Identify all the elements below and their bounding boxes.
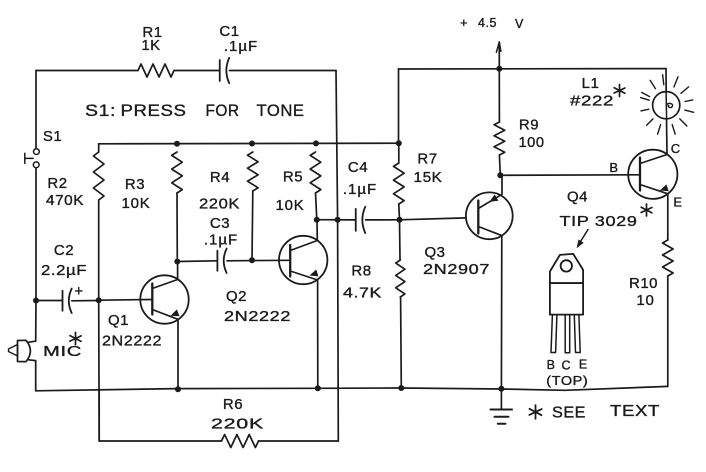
switch S1 contact top: [34, 149, 40, 155]
switch S1 actuator: [25, 157, 33, 159]
node R4 bottom junction: [249, 257, 255, 263]
Q4 package pin C: [565, 315, 570, 353]
wire lamp to Q4 collector: [666, 119, 669, 155]
svg-text:TIP 3029: TIP 3029: [560, 213, 638, 230]
wire R9 bottom: [498, 155, 501, 175]
svg-text:1K: 1K: [141, 37, 160, 54]
wire C4 to R7 node: [366, 219, 400, 221]
svg-text:R4: R4: [210, 169, 230, 186]
wire R6 left horizontal: [99, 440, 221, 442]
node +4.5V rail junction: [496, 66, 502, 72]
ground symbol: [500, 389, 502, 410]
svg-text:Q2: Q2: [226, 288, 247, 305]
transistor Q1 emitter: [152, 310, 178, 390]
svg-text:+: +: [74, 283, 83, 300]
wire R6 right horizontal: [259, 440, 339, 442]
svg-text:2.2µF: 2.2µF: [41, 262, 87, 279]
power +4.5V arrow: [498, 42, 500, 69]
svg-text:B: B: [547, 358, 556, 372]
transistor Q3 circle: [466, 192, 513, 239]
transistor Q2 base bar: [289, 245, 291, 277]
resistor R9: [494, 122, 505, 155]
wire R6 left vertical: [98, 391, 100, 441]
svg-text:C2: C2: [54, 242, 74, 259]
lamp L1 filament: [666, 103, 672, 107]
svg-text:S1:: S1:: [85, 102, 116, 120]
svg-text:R6: R6: [223, 396, 243, 413]
transistor Q4 circle: [628, 150, 677, 199]
wire left vertical below S1: [35, 168, 37, 301]
wire R4 bottom: [251, 191, 254, 260]
node R5 top: [313, 140, 319, 146]
svg-text:SEE: SEE: [552, 405, 586, 422]
svg-text:R5: R5: [283, 169, 303, 186]
svg-text:TONE: TONE: [257, 102, 305, 120]
wire R8 top: [399, 220, 402, 260]
svg-text:MIC: MIC: [43, 343, 82, 360]
svg-text:220K: 220K: [199, 196, 240, 213]
Q4 package pin E: [574, 315, 580, 353]
wire R9 top: [498, 69, 500, 122]
transistor Q4 emitter arrow: [660, 184, 669, 191]
wire left vertical top: [35, 71, 37, 149]
wire R7 gap top: [398, 143, 400, 163]
transistor Q3 emitter: [478, 175, 502, 208]
svg-text:15K: 15K: [414, 169, 443, 186]
svg-text:.1µF: .1µF: [224, 38, 258, 55]
transistor Q2 circle: [279, 236, 327, 284]
transistor Q3 base bar: [477, 201, 479, 234]
resistor R8: [396, 260, 405, 297]
transistor Q1 base bar: [151, 284, 153, 315]
switch S1 contact bottom: [33, 162, 39, 168]
svg-text:10K: 10K: [121, 195, 150, 212]
wire to C2: [36, 300, 62, 302]
svg-text:4.5: 4.5: [478, 16, 497, 30]
resistor R1: [138, 64, 174, 77]
node R5 bottom junction: [314, 217, 320, 223]
wire Q4 base: [500, 174, 640, 177]
svg-text:PRESS: PRESS: [121, 102, 187, 120]
svg-text:B: B: [609, 160, 618, 175]
capacitor C2: [62, 291, 64, 311]
svg-text:10: 10: [636, 292, 654, 309]
wire y220 line to C4: [317, 219, 356, 221]
svg-text:E: E: [673, 195, 682, 210]
svg-text:E: E: [579, 358, 588, 372]
node R3 top: [174, 141, 180, 147]
transistor Q3 collector: [478, 227, 502, 389]
transistor Q4 collector: [640, 155, 667, 164]
wire top-left rail (node R1/C1 net): [36, 70, 138, 72]
svg-text:+: +: [460, 15, 468, 30]
Q4 package tab: [550, 254, 583, 283]
svg-text:R8: R8: [351, 263, 371, 280]
Q4 package tab hole: [561, 260, 572, 271]
wire R7 vertical top: [398, 69, 400, 143]
svg-text:Q3: Q3: [424, 244, 445, 261]
svg-text:(TOP): (TOP): [546, 374, 588, 388]
wire R2 bottom to base node: [98, 200, 100, 300]
svg-text:.1µF: .1µF: [204, 232, 238, 249]
svg-text:2N2222: 2N2222: [224, 308, 291, 325]
node R4 top: [249, 141, 255, 147]
label L1 star: [619, 85, 621, 97]
wire R1 to C1: [174, 70, 220, 72]
svg-text:220K: 220K: [211, 416, 264, 433]
wire C3 line from Q1 collector: [177, 260, 217, 263]
capacitor C1: [219, 60, 221, 81]
resistor R4: [248, 152, 259, 191]
svg-text:.1µF: .1µF: [343, 181, 377, 198]
transistor Q3 emitter arrow: [490, 194, 499, 201]
resistor R5: [310, 152, 321, 193]
wire R5 bottom: [316, 193, 317, 220]
label SEE TEXT star: [535, 405, 537, 419]
lamp L1 wire through: [665, 92, 668, 119]
resistor R3: [172, 152, 183, 193]
svg-text:2N2222: 2N2222: [102, 333, 162, 350]
Q4 package pin B: [551, 315, 557, 353]
transistor Q2 collector: [290, 220, 317, 251]
svg-text:C3: C3: [210, 215, 230, 232]
wire Q3 base: [400, 218, 466, 220]
node Q1 base junction: [96, 297, 102, 303]
svg-text:V: V: [515, 17, 524, 31]
microphone MIC: [18, 340, 31, 361]
label Q4 star: [646, 204, 648, 216]
svg-text:R10: R10: [629, 275, 658, 292]
node R8 rail junction: [398, 385, 404, 391]
node Q3 collector rail junction: [498, 386, 504, 392]
lamp L1 rays: [642, 92, 650, 96]
resistor R10: [663, 240, 674, 276]
wire left vertical to MIC: [35, 301, 37, 341]
svg-text:S1: S1: [43, 128, 62, 145]
capacitor C3: [216, 251, 218, 271]
lamp L1 circle: [653, 92, 680, 119]
wire R2 vertical below (to R6 loop): [98, 300, 101, 441]
node Q3 emitter / Q4 base junction: [497, 172, 503, 178]
wire rail corner to lamp: [665, 69, 667, 92]
node Q1 emitter rail junction: [175, 386, 181, 392]
wire R8 bottom: [400, 297, 403, 388]
wire C2 to R2 node: [72, 300, 99, 302]
node C2 left junction: [33, 298, 39, 304]
wire R2 top stub: [98, 144, 100, 152]
wire left vertical below MIC: [35, 361, 37, 391]
svg-text:FOR: FOR: [206, 102, 240, 120]
svg-text:4.7K: 4.7K: [343, 285, 382, 302]
transistor Q1 circle: [140, 275, 188, 323]
svg-text:470K: 470K: [46, 192, 84, 209]
transistor Q1 collector: [152, 262, 177, 289]
transistor Q4 base bar: [639, 158, 641, 191]
Q4 package pointer arrow: [578, 230, 588, 246]
svg-text:Q1: Q1: [108, 312, 129, 329]
svg-text:L1: L1: [582, 75, 600, 92]
wire R10 bottom: [667, 276, 669, 386]
label MIC star: [75, 332, 77, 344]
svg-text:R2: R2: [47, 175, 67, 192]
svg-text:R3: R3: [125, 176, 145, 193]
node Q1 collector junction: [174, 259, 180, 265]
node feedback junction: [335, 217, 341, 223]
svg-text:100: 100: [519, 134, 545, 151]
svg-text:#222: #222: [570, 93, 614, 110]
svg-text:C: C: [671, 141, 681, 156]
svg-text:2N2907: 2N2907: [423, 261, 490, 278]
wire Q1 base: [99, 299, 152, 302]
node R8 top junction: [397, 217, 403, 223]
svg-text:R7: R7: [417, 151, 437, 168]
svg-text:C4: C4: [348, 159, 368, 176]
capacitor C4: [355, 209, 357, 231]
transistor Q2 emitter arrow: [310, 270, 319, 277]
svg-text:C: C: [562, 358, 572, 372]
wire top rail right: [399, 68, 667, 70]
wire R3 bottom: [176, 193, 178, 262]
svg-text:Q4: Q4: [567, 189, 588, 206]
wire R7 bottom: [398, 204, 401, 220]
Q4 package body: [550, 283, 583, 315]
node R7 bus junction: [396, 140, 402, 146]
svg-text:R9: R9: [519, 117, 539, 134]
bus rail (R2/R3/R4/R5/R7 tops): [99, 142, 399, 145]
transistor Q1 emitter arrow: [171, 309, 180, 316]
transistor Q4 emitter: [640, 185, 668, 241]
wire C1 to right corner: [230, 70, 337, 72]
bottom ground rail: [36, 386, 668, 390]
resistor R7: [394, 163, 405, 204]
node Q2 emitter rail junction: [315, 385, 321, 391]
svg-text:10K: 10K: [275, 197, 304, 214]
svg-text:TEXT: TEXT: [610, 403, 660, 420]
resistor R6: [222, 435, 259, 448]
resistor R2: [93, 152, 104, 200]
transistor Q2 emitter: [290, 271, 318, 388]
wire feedback vertical (C1 to R6): [336, 71, 338, 220]
wire C3 to Q2 base: [227, 259, 290, 262]
